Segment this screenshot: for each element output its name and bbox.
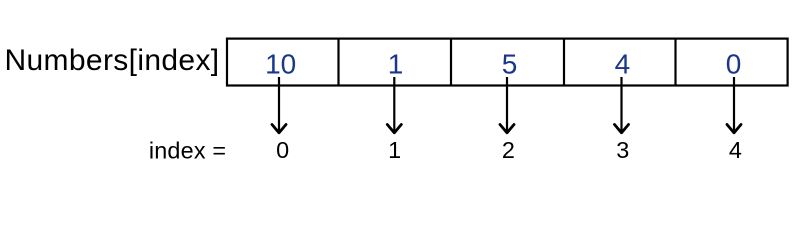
arrow 2 [500, 77, 514, 133]
arrow 4 [727, 77, 741, 133]
arrow 3 [615, 77, 629, 133]
cell divider 3 [563, 38, 565, 87]
cell divider 2 [450, 38, 452, 87]
svg-text:index =: index = [149, 137, 226, 163]
svg-text:3: 3 [616, 137, 629, 163]
svg-text:2: 2 [502, 137, 515, 163]
arrow 1 [387, 77, 401, 133]
svg-text:5: 5 [502, 48, 518, 79]
svg-text:4: 4 [615, 48, 631, 79]
svg-text:10: 10 [265, 48, 296, 79]
svg-text:1: 1 [388, 137, 401, 163]
svg-text:Numbers[index]: Numbers[index] [5, 44, 220, 77]
svg-text:4: 4 [729, 137, 742, 163]
svg-text:1: 1 [388, 48, 404, 79]
array box outline [227, 39, 788, 86]
cell divider 1 [337, 38, 339, 87]
cell divider 4 [674, 38, 676, 87]
svg-text:0: 0 [726, 48, 742, 79]
svg-text:0: 0 [276, 137, 289, 163]
arrow 0 [272, 77, 286, 133]
